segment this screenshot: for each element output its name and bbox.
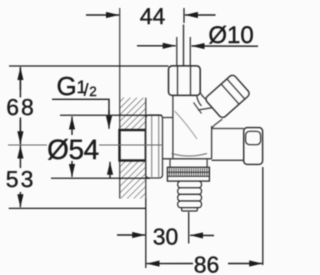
dimension Ø54 arrows <box>71 117 73 136</box>
top pipe (Ø10) <box>177 37 191 66</box>
valve body main outline <box>173 95 212 158</box>
dimension Ø10: arrows <box>137 45 176 47</box>
svg-text:/: / <box>84 81 89 100</box>
center axis line <box>8 144 162 146</box>
serrated (knurled) ring <box>167 167 209 181</box>
svg-text:30: 30 <box>153 224 179 250</box>
dimension 86: right extension line <box>262 167 264 265</box>
G 1/2 leader: underline and arrow to pipe <box>52 99 109 121</box>
wall hatching <box>120 98 146 199</box>
body interior arcs <box>175 111 198 139</box>
escutcheon face line <box>152 116 159 177</box>
G1/2 inlet tailpiece rectangle in wall <box>120 130 146 161</box>
dimension 44: line and arrows <box>86 14 119 16</box>
top compression nut <box>169 66 201 96</box>
bottom collar under body <box>170 159 207 168</box>
svg-text:2: 2 <box>89 84 97 99</box>
dimension 86: line and arrows (inside) <box>147 263 194 265</box>
svg-text:Ø54: Ø54 <box>47 134 99 165</box>
dimension 68 vertical with arrows <box>19 67 21 144</box>
top extension line at y=66 (68 dim) <box>9 65 169 67</box>
knob (45° knurled handle) <box>204 74 250 119</box>
valve body left arm <box>163 118 212 159</box>
svg-text:86: 86 <box>194 251 220 275</box>
wall right edge line <box>145 98 147 199</box>
svg-text:G: G <box>57 71 77 101</box>
svg-text:53: 53 <box>6 166 36 192</box>
hose nipple (ribbed outlet) <box>178 181 202 211</box>
svg-text:Ø10: Ø10 <box>208 22 253 49</box>
dimension 30: arrows (outside) <box>117 234 145 236</box>
right outlet arm <box>212 129 244 161</box>
left extension line below wall (30/86) <box>145 199 147 269</box>
45-degree boss / neck to knob <box>198 93 214 111</box>
bottom extension line at y=208.4 <box>9 207 146 209</box>
dimension 44: right extension line <box>183 8 185 23</box>
escutcheon (rosette) <box>146 115 163 178</box>
svg-text:68: 68 <box>6 94 36 120</box>
wall/dimension extension line left (44 left ext + wall face) <box>119 8 121 199</box>
svg-text:44: 44 <box>140 3 166 29</box>
right compression nut <box>244 128 263 165</box>
G 1/2 lower arrow pointing up to pipe bottom <box>109 162 111 178</box>
dimension 30: right extension line <box>188 212 190 244</box>
dimension Ø54: extension lines <box>60 114 162 116</box>
knob collar edge <box>202 95 214 107</box>
dimension 53 vertical with arrows <box>19 146 21 169</box>
